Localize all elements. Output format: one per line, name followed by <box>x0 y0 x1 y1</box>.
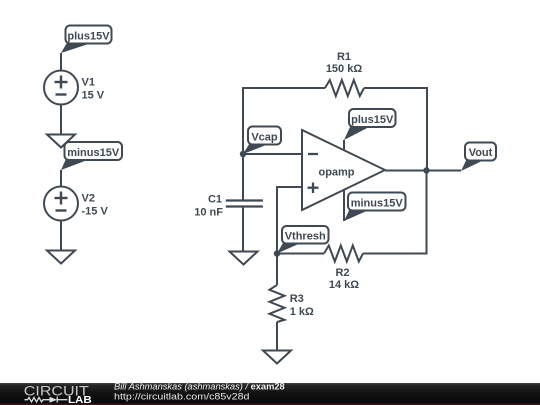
net flag Vout <box>461 143 496 172</box>
svg-text:http://circuitlab.com/c85v28d: http://circuitlab.com/c85v28d <box>114 392 250 402</box>
svg-text:C1: C1 <box>208 194 222 206</box>
footer bar <box>0 383 540 405</box>
node Vthresh <box>274 250 280 256</box>
resistor R1 <box>325 51 364 96</box>
wire <box>242 207 244 252</box>
svg-text:10 nF: 10 nF <box>194 207 223 219</box>
svg-text:plus15V: plus15V <box>67 30 110 42</box>
node (output junction) <box>423 167 429 173</box>
wire (output) <box>385 170 461 172</box>
ground <box>47 251 75 264</box>
wire <box>243 153 302 155</box>
svg-text:opamp: opamp <box>318 167 354 179</box>
svg-text:Vout: Vout <box>469 147 493 159</box>
resistor R3 <box>270 285 314 322</box>
svg-text:R2: R2 <box>335 267 349 279</box>
ground <box>263 351 291 364</box>
resistor R2 <box>324 246 363 292</box>
net flag plus15V (op-amp V+) <box>344 109 396 140</box>
svg-text:V2: V2 <box>82 193 95 205</box>
svg-text:plus15V: plus15V <box>351 114 394 126</box>
wire <box>277 187 302 254</box>
voltage source V2 <box>44 187 78 221</box>
wire <box>364 88 427 171</box>
voltage source V1 <box>44 71 78 105</box>
ground <box>47 135 75 148</box>
net flag Vthresh <box>277 226 329 254</box>
svg-text:Vcap: Vcap <box>251 131 278 143</box>
svg-text:LAB: LAB <box>68 395 92 405</box>
wire <box>363 171 427 254</box>
CircuitLab logo: wire with resistor and diode <box>25 397 68 403</box>
svg-text:Vthresh: Vthresh <box>285 230 326 242</box>
svg-text:minus15V: minus15V <box>351 197 404 209</box>
svg-text:14 kΩ: 14 kΩ <box>329 279 359 291</box>
capacitor C1 <box>194 194 263 219</box>
svg-text:-15 V: -15 V <box>82 206 109 218</box>
net flag plus15V <box>61 26 112 54</box>
node Vcap <box>240 151 246 157</box>
wire <box>60 221 62 251</box>
op-amp U1 <box>302 130 385 210</box>
net flag Vcap <box>243 127 281 155</box>
svg-text:minus15V: minus15V <box>67 147 120 159</box>
wire (op-amp V+ pin) <box>343 140 345 151</box>
net flag minus15V (op-amp V-) <box>344 193 406 222</box>
wire <box>277 253 324 255</box>
net flag minus15V <box>61 142 122 170</box>
wire <box>276 322 278 350</box>
svg-text:150 kΩ: 150 kΩ <box>326 63 363 75</box>
wire <box>243 88 325 154</box>
svg-text:V1: V1 <box>82 77 95 89</box>
wire <box>60 105 62 135</box>
svg-text:Bill Ashmanskas (ashmanskas) /: Bill Ashmanskas (ashmanskas) / exam28 <box>114 382 285 392</box>
svg-text:1 kΩ: 1 kΩ <box>290 306 314 318</box>
CircuitLab logo: diode <box>50 397 58 403</box>
wire <box>242 154 244 201</box>
wire <box>276 254 278 286</box>
wire (op-amp V- pin) <box>343 190 345 221</box>
ground <box>230 252 258 265</box>
wire <box>60 170 62 187</box>
svg-text:15 V: 15 V <box>82 90 105 102</box>
svg-text:R3: R3 <box>290 293 304 305</box>
svg-text:R1: R1 <box>337 51 351 63</box>
wire <box>60 53 62 71</box>
